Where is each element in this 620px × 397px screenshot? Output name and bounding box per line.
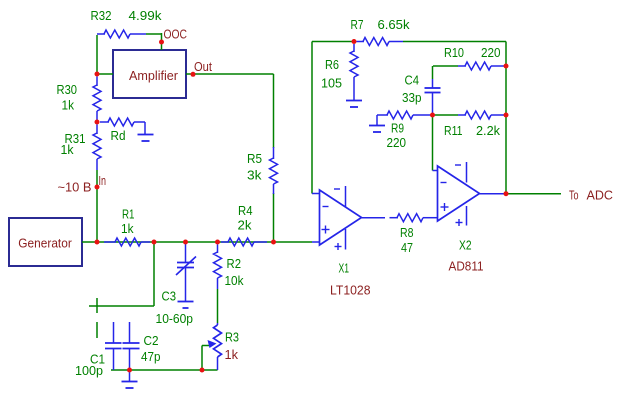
svg-text:R30: R30 bbox=[57, 82, 78, 97]
svg-text:~10 B: ~10 B bbox=[58, 179, 92, 194]
svg-text:33p: 33p bbox=[402, 90, 422, 105]
svg-text:100p: 100p bbox=[75, 363, 103, 378]
svg-text:OOC: OOC bbox=[164, 27, 188, 42]
svg-text:LT1028: LT1028 bbox=[330, 282, 371, 297]
svg-text:X2: X2 bbox=[459, 237, 472, 252]
svg-text:4.99k: 4.99k bbox=[129, 8, 163, 23]
svg-text:Out: Out bbox=[194, 59, 212, 74]
svg-text:10-60p: 10-60p bbox=[156, 311, 194, 326]
svg-text:R4: R4 bbox=[238, 203, 253, 218]
svg-text:R8: R8 bbox=[400, 225, 414, 240]
svg-text:2k: 2k bbox=[238, 217, 253, 232]
svg-text:2.2k: 2.2k bbox=[476, 123, 500, 138]
svg-text:AD811: AD811 bbox=[449, 258, 484, 273]
svg-text:Rd: Rd bbox=[111, 128, 126, 143]
svg-text:220: 220 bbox=[481, 45, 501, 60]
svg-text:6.65k: 6.65k bbox=[378, 17, 410, 32]
svg-text:C4: C4 bbox=[405, 72, 420, 87]
svg-text:3k: 3k bbox=[247, 167, 262, 182]
svg-text:10k: 10k bbox=[225, 273, 244, 288]
svg-text:R5: R5 bbox=[247, 151, 262, 166]
svg-text:1k: 1k bbox=[62, 97, 75, 112]
svg-text:47: 47 bbox=[401, 240, 413, 255]
svg-text:To: To bbox=[569, 187, 579, 202]
svg-text:1k: 1k bbox=[121, 221, 134, 236]
svg-text:105: 105 bbox=[321, 75, 342, 90]
svg-text:C3: C3 bbox=[162, 288, 177, 303]
svg-text:R10: R10 bbox=[444, 45, 464, 60]
svg-text:X1: X1 bbox=[339, 260, 350, 275]
svg-text:ADC: ADC bbox=[587, 187, 614, 202]
svg-text:R32: R32 bbox=[91, 8, 112, 23]
svg-text:R7: R7 bbox=[351, 17, 364, 32]
svg-text:R2: R2 bbox=[227, 256, 242, 271]
svg-text:C2: C2 bbox=[144, 333, 159, 348]
svg-text:R3: R3 bbox=[225, 329, 239, 344]
svg-text:R9: R9 bbox=[391, 120, 404, 135]
svg-text:Generator: Generator bbox=[18, 235, 72, 250]
svg-text:1k: 1k bbox=[61, 142, 74, 157]
svg-text:R11: R11 bbox=[444, 123, 463, 138]
svg-text:R1: R1 bbox=[122, 206, 135, 221]
svg-text:1k: 1k bbox=[225, 347, 239, 362]
svg-text:Amplifier: Amplifier bbox=[129, 68, 179, 83]
svg-text:R6: R6 bbox=[325, 57, 339, 72]
svg-text:47p: 47p bbox=[141, 349, 161, 364]
svg-text:In: In bbox=[99, 173, 107, 188]
svg-text:220: 220 bbox=[387, 135, 407, 150]
